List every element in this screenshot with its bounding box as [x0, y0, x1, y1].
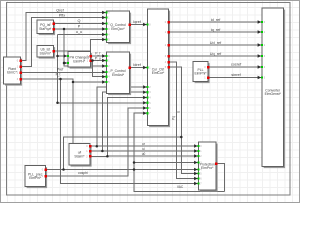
svg-text:StaVm*: StaVm*	[40, 51, 52, 55]
svg-text:Pfix: Pfix	[59, 14, 65, 18]
svg-text:u0: u0	[142, 152, 146, 156]
svg-text:ElmAst*: ElmAst*	[112, 73, 125, 77]
svg-text:ElmGenst*: ElmGenst*	[265, 92, 282, 96]
svg-text:sinref: sinref	[231, 73, 241, 77]
svg-text:u_u: u_u	[76, 30, 82, 34]
svg-text:P_t: P_t	[56, 72, 61, 76]
svg-text:ElmCur*: ElmCur*	[152, 71, 165, 75]
svg-text:Iqref: Iqref	[133, 20, 142, 24]
svg-text:Pref: Pref	[57, 68, 64, 72]
svg-text:Q: Q	[78, 19, 81, 23]
svg-text:ElmQco*: ElmQco*	[111, 27, 125, 31]
svg-text:cosphi: cosphi	[78, 171, 88, 175]
svg-text:Qref: Qref	[56, 9, 64, 13]
svg-text:P: P	[78, 25, 81, 29]
svg-text:Ud_ref: Ud_ref	[210, 41, 222, 45]
svg-text:ElmPH*: ElmPH*	[73, 59, 86, 63]
svg-text:Uq_ref: Uq_ref	[210, 52, 222, 56]
svg-text:id_ref: id_ref	[211, 18, 221, 22]
svg-text:ElmPhi*: ElmPhi*	[29, 176, 42, 180]
svg-text:iq_ref: iq_ref	[211, 28, 221, 32]
svg-text:ElmPhi*: ElmPhi*	[194, 72, 207, 76]
svg-text:Pq: Pq	[172, 116, 176, 120]
svg-text:P_f: P_f	[95, 52, 100, 56]
svg-text:ui: ui	[142, 147, 145, 151]
svg-text:VAC: VAC	[177, 185, 184, 189]
svg-text:Idref: Idref	[133, 63, 142, 67]
svg-text:P_u: P_u	[95, 56, 101, 60]
svg-text:cosref: cosref	[231, 63, 242, 67]
svg-text:ElmPro*: ElmPro*	[201, 166, 214, 170]
svg-text:StaIm*: StaIm*	[74, 154, 85, 158]
